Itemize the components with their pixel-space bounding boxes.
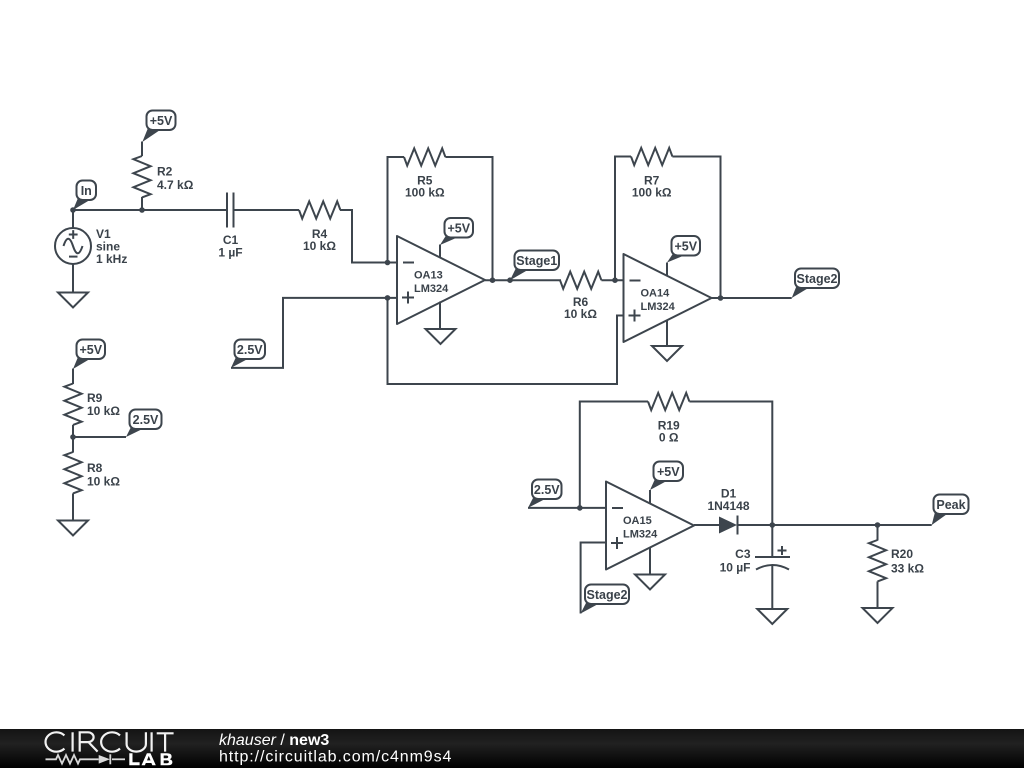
svg-text:10 kΩ: 10 kΩ (303, 239, 336, 253)
svg-text:R8: R8 (87, 461, 103, 475)
svg-text:C3: C3 (735, 547, 751, 561)
svg-text:In: In (81, 184, 92, 198)
svg-text:R20: R20 (891, 547, 913, 561)
svg-text:LM324: LM324 (641, 301, 676, 313)
svg-text:100 kΩ: 100 kΩ (405, 186, 445, 200)
svg-text:LM324: LM324 (414, 283, 449, 295)
svg-text:1 kHz: 1 kHz (96, 252, 127, 266)
svg-text:0 Ω: 0 Ω (659, 431, 679, 445)
svg-text:100 kΩ: 100 kΩ (632, 186, 672, 200)
svg-text:Peak: Peak (936, 498, 965, 512)
svg-text:khauser / new3: khauser / new3 (219, 732, 329, 749)
svg-text:Stage2: Stage2 (797, 272, 838, 286)
svg-text:4.7 kΩ: 4.7 kΩ (157, 178, 194, 192)
svg-text:LM324: LM324 (623, 529, 658, 541)
svg-text:+5V: +5V (447, 221, 470, 235)
svg-text:10 kΩ: 10 kΩ (87, 475, 120, 489)
svg-text:http://circuitlab.com/c4nm9s4: http://circuitlab.com/c4nm9s4 (219, 749, 452, 766)
svg-text:+5V: +5V (674, 239, 697, 253)
svg-text:+5V: +5V (150, 114, 173, 128)
svg-text:R2: R2 (157, 165, 173, 179)
svg-text:1N4148: 1N4148 (707, 499, 749, 513)
svg-text:10 kΩ: 10 kΩ (564, 307, 597, 321)
svg-text:1 µF: 1 µF (218, 246, 242, 260)
svg-text:Stage1: Stage1 (516, 254, 557, 268)
svg-text:OA15: OA15 (623, 515, 652, 527)
svg-text:10 µF: 10 µF (720, 561, 751, 575)
svg-text:+5V: +5V (79, 343, 102, 357)
svg-text:+5V: +5V (657, 465, 680, 479)
svg-text:2.5V: 2.5V (237, 343, 263, 357)
svg-text:33 kΩ: 33 kΩ (891, 562, 924, 576)
svg-text:Stage2: Stage2 (587, 588, 628, 602)
svg-text:OA13: OA13 (414, 270, 443, 282)
svg-text:2.5V: 2.5V (133, 413, 159, 427)
svg-text:OA14: OA14 (641, 288, 671, 300)
svg-text:R9: R9 (87, 391, 103, 405)
svg-text:2.5V: 2.5V (534, 483, 560, 497)
svg-text:10 kΩ: 10 kΩ (87, 404, 120, 418)
